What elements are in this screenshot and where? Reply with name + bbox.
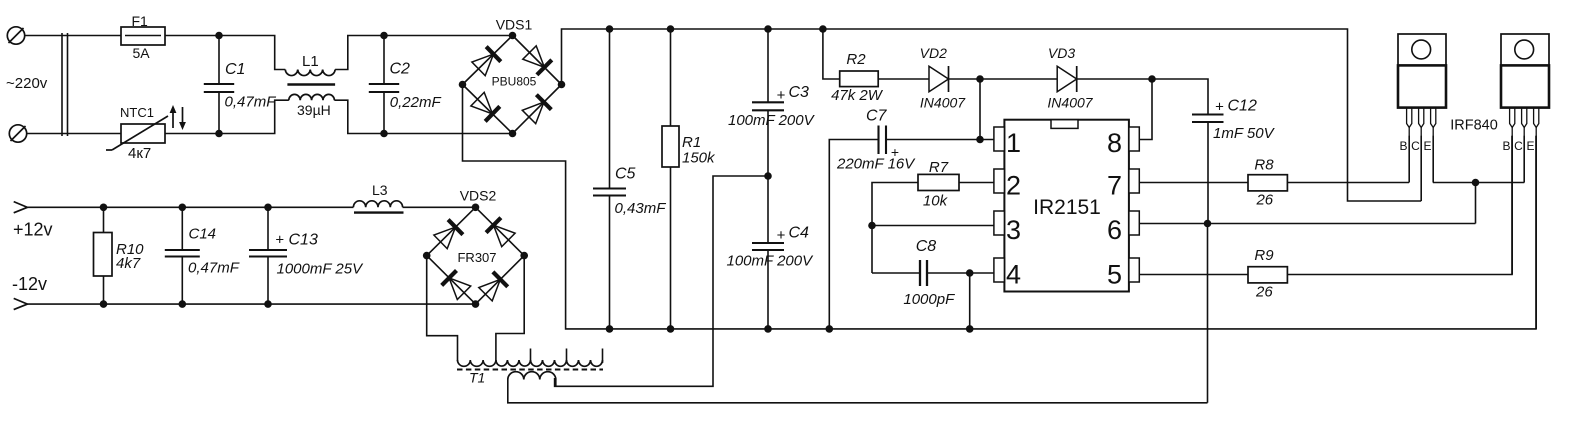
svg-text:IN4007: IN4007: [1047, 95, 1093, 111]
svg-text:C12: C12: [1228, 98, 1257, 115]
svg-text:5: 5: [1107, 260, 1122, 290]
svg-text:+: +: [1215, 99, 1224, 116]
svg-text:4k7: 4k7: [116, 255, 141, 272]
svg-text:R7: R7: [929, 159, 949, 176]
svg-text:2: 2: [1006, 171, 1021, 201]
svg-text:7: 7: [1107, 171, 1122, 201]
svg-text:47k 2W: 47k 2W: [831, 87, 884, 104]
svg-text:R8: R8: [1254, 157, 1274, 174]
svg-text:VDS1: VDS1: [496, 17, 533, 33]
svg-text:0,43mF: 0,43mF: [615, 200, 667, 217]
svg-text:5A: 5A: [133, 45, 151, 61]
svg-text:VD2: VD2: [920, 45, 947, 61]
svg-text:+12v: +12v: [13, 220, 53, 240]
svg-text:C13: C13: [289, 232, 318, 249]
svg-text:VD3: VD3: [1048, 45, 1075, 61]
svg-text:+: +: [275, 232, 284, 249]
svg-text:26: 26: [1255, 284, 1273, 301]
svg-text:C8: C8: [916, 238, 937, 255]
svg-text:3: 3: [1006, 215, 1021, 245]
svg-text:~220v: ~220v: [6, 75, 48, 92]
svg-text:C5: C5: [615, 166, 636, 183]
svg-text:10k: 10k: [923, 193, 949, 210]
svg-text:F1: F1: [132, 13, 149, 29]
svg-text:L1: L1: [302, 53, 319, 70]
svg-text:C3: C3: [789, 84, 810, 101]
svg-text:IR2151: IR2151: [1033, 196, 1101, 219]
svg-text:C1: C1: [225, 61, 245, 78]
svg-text:C: C: [1514, 139, 1523, 153]
svg-text:VDS2: VDS2: [460, 188, 497, 204]
svg-text:1: 1: [1006, 128, 1021, 158]
svg-text:IRF840: IRF840: [1450, 118, 1498, 134]
svg-text:B: B: [1399, 139, 1407, 153]
svg-text:220mF 16V: 220mF 16V: [836, 156, 916, 173]
svg-text:-12v: -12v: [12, 274, 47, 294]
svg-text:+: +: [777, 87, 786, 104]
svg-text:100mF 200V: 100mF 200V: [727, 253, 815, 270]
svg-text:C7: C7: [866, 108, 888, 125]
svg-text:R2: R2: [846, 51, 866, 68]
svg-text:26: 26: [1255, 192, 1273, 209]
svg-text:1000pF: 1000pF: [903, 291, 955, 308]
svg-text:NTC1: NTC1: [120, 105, 154, 120]
svg-text:IN4007: IN4007: [920, 95, 966, 111]
svg-text:E: E: [1423, 139, 1431, 153]
svg-text:C4: C4: [789, 225, 810, 242]
svg-text:R9: R9: [1254, 247, 1274, 264]
svg-text:4: 4: [1006, 260, 1021, 290]
svg-text:FR307: FR307: [457, 250, 496, 265]
svg-text:8: 8: [1107, 128, 1122, 158]
svg-text:100mF 200V: 100mF 200V: [728, 112, 816, 129]
svg-text:1000mF 25V: 1000mF 25V: [277, 261, 365, 278]
svg-text:0,47mF: 0,47mF: [188, 260, 240, 277]
svg-text:6: 6: [1107, 215, 1122, 245]
svg-text:C2: C2: [390, 61, 411, 78]
svg-text:0,22mF: 0,22mF: [390, 94, 442, 111]
svg-text:C: C: [1411, 139, 1420, 153]
svg-text:+: +: [777, 227, 786, 244]
svg-text:C14: C14: [189, 226, 217, 243]
svg-text:150k: 150k: [682, 150, 716, 167]
svg-text:B: B: [1502, 139, 1510, 153]
svg-text:T1: T1: [469, 370, 485, 386]
svg-text:4к7: 4к7: [128, 145, 151, 162]
svg-text:E: E: [1526, 139, 1534, 153]
svg-text:39µH: 39µH: [297, 102, 331, 118]
svg-text:1mF 50V: 1mF 50V: [1213, 125, 1276, 142]
svg-text:PBU805: PBU805: [492, 75, 537, 89]
svg-text:0,47mF: 0,47mF: [225, 94, 277, 111]
svg-text:R1: R1: [682, 134, 701, 151]
svg-text:L3: L3: [372, 182, 388, 198]
